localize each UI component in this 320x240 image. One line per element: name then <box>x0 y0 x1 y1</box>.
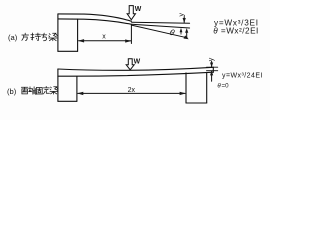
svg-text:x: x <box>102 34 106 41</box>
svg-text:2x: 2x <box>128 87 136 94</box>
formula y (b) <box>222 73 263 80</box>
svg-text:θ: θ <box>168 28 176 38</box>
arrow up to end-axis line <box>185 28 188 33</box>
beam (b) right end face <box>212 67 214 72</box>
svg-text:θ =Wx²/2EI: θ =Wx²/2EI <box>213 27 259 36</box>
svg-text:W: W <box>134 58 141 65</box>
kanji 梁 <box>49 33 58 41</box>
dimension x line (a) <box>79 40 131 42</box>
wall (a) bottom <box>58 50 78 52</box>
label (b) fixed-end beam <box>7 87 17 96</box>
wall (b-right) right face <box>206 72 208 103</box>
extra up arrow (angle mark) <box>180 28 183 33</box>
kanji 定 <box>43 86 50 94</box>
label theta (a diagram) <box>168 28 176 38</box>
svg-text:y: y <box>208 57 215 61</box>
dim y (b): vertical <box>211 61 213 81</box>
svg-text:θ=0: θ=0 <box>217 83 229 90</box>
beam (b) bottom edge <box>58 72 213 76</box>
load arrow W (b) <box>126 59 134 70</box>
label x <box>102 34 106 41</box>
kanji 方 <box>22 33 29 41</box>
wall (b-left) bottom <box>58 100 77 102</box>
arrowhead right x <box>125 39 131 42</box>
beam (b) left end face / wall left edge <box>57 69 59 101</box>
arrow up (b) <box>210 71 213 76</box>
kanji 梁 (b) <box>50 87 58 94</box>
dim y (b): lower tick <box>207 70 218 72</box>
dim y (b): upper tick <box>207 66 218 68</box>
wall (b-right) left face <box>185 73 187 103</box>
kana ち <box>41 33 46 41</box>
rotated label y (b) <box>208 57 215 61</box>
arrow down to ref line <box>183 18 186 23</box>
svg-text:(a): (a) <box>8 33 18 42</box>
formula theta (a) <box>213 27 259 36</box>
svg-text:y: y <box>179 13 186 17</box>
wall (b-left) right face <box>76 77 78 102</box>
kanji 両 <box>21 87 28 94</box>
arrowhead left 2x <box>77 92 83 95</box>
svg-text:W: W <box>135 6 142 13</box>
label W (b) <box>134 58 141 65</box>
label W (a) <box>135 6 142 13</box>
horizontal reference line (a) <box>132 21 190 24</box>
arrow down (b) <box>210 63 213 68</box>
end-axis line (a) <box>132 24 190 28</box>
kanji 固 <box>36 88 42 95</box>
rotated label y (a) <box>179 13 186 17</box>
arrowhead right 2x <box>180 92 186 95</box>
label 2x <box>128 87 136 94</box>
wall (a) left edge <box>57 14 59 51</box>
beam (a) bottom edge <box>58 19 131 24</box>
dim y vertical (a) <box>184 17 187 38</box>
formula theta (b) <box>217 83 229 90</box>
load arrow W (a) <box>127 6 135 20</box>
wall (b-right) bottom <box>186 102 207 104</box>
dimension 2x line (b) <box>78 92 185 94</box>
kanji 持 <box>31 33 41 40</box>
label (a) cantilever beam <box>8 33 18 42</box>
extension line under load point <box>130 25 132 44</box>
formula y (a) <box>214 19 259 28</box>
tangent line theta (a) <box>132 25 188 38</box>
svg-text:(b): (b) <box>7 87 17 96</box>
tangent arrowhead <box>184 35 189 39</box>
kanji 端 <box>29 87 37 94</box>
wall (a) right face <box>77 19 79 51</box>
beam (b) top edge <box>58 67 213 70</box>
arrowhead left x <box>78 39 84 42</box>
svg-text:y=Wx³/24EI: y=Wx³/24EI <box>222 73 263 80</box>
beam (a) top edge (deflection curve) <box>58 14 131 21</box>
